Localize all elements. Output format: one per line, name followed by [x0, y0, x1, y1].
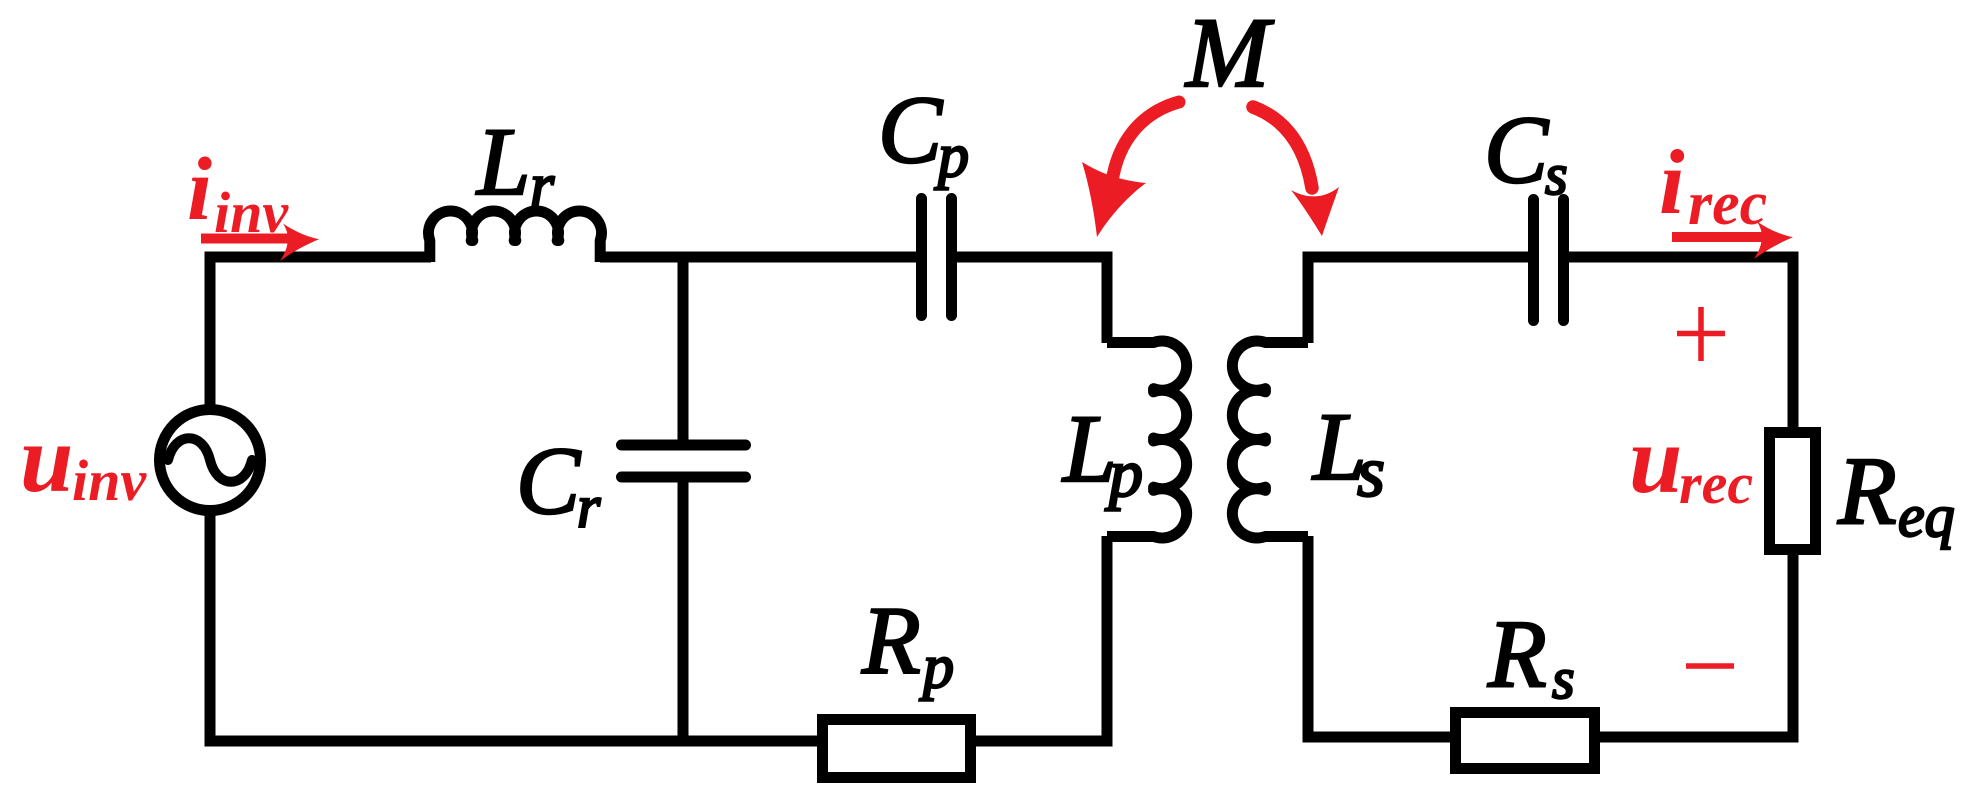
svg-text:s: s — [1357, 432, 1385, 512]
mutual coupling arrow left (arc) — [1112, 102, 1179, 182]
svg-text:u: u — [20, 405, 73, 512]
inductor Lr — [428, 211, 601, 262]
svg-text:R: R — [1837, 437, 1897, 544]
inductor Ls (transformer secondary) — [1232, 341, 1308, 538]
svg-text:u: u — [1629, 406, 1682, 513]
wire: top wire from Cp to primary right corner, down to Lp coil — [957, 257, 1107, 343]
svg-text:s: s — [1552, 646, 1575, 711]
svg-text:r: r — [530, 152, 555, 220]
wire: primary right vertical below Lp coil + bottom wire to Rp — [974, 536, 1107, 741]
svg-text:i: i — [187, 140, 212, 239]
svg-text:R: R — [1487, 600, 1547, 707]
svg-text:p: p — [934, 122, 969, 190]
arrow i_rec shaft — [1672, 232, 1767, 242]
capacitor Cs — [1534, 200, 1564, 321]
resistor Rs — [1456, 713, 1595, 769]
svg-text:p: p — [1105, 435, 1143, 511]
svg-text:C: C — [516, 427, 581, 534]
capacitor Cp — [922, 199, 952, 316]
resistor Req — [1770, 433, 1816, 550]
mutual coupling arrow right (arc) — [1253, 107, 1312, 188]
svg-text:rec: rec — [1688, 170, 1767, 238]
wire: secondary left vertical + top lead to Cs — [1308, 257, 1528, 343]
svg-text:L: L — [475, 108, 530, 215]
resistor Rp — [823, 720, 971, 778]
svg-text:C: C — [878, 76, 943, 183]
svg-text:r: r — [577, 474, 601, 540]
wire: secondary top from Cs to right corner down to Req — [1569, 257, 1793, 430]
wire: primary left loop (left vertical + top lead + bottom lead) — [210, 257, 820, 741]
arrow i_inv shaft — [201, 234, 293, 244]
svg-text:s: s — [1545, 142, 1568, 207]
svg-text:i: i — [1659, 131, 1685, 233]
arrow i_rec head — [1754, 222, 1793, 260]
capacitor Cr — [622, 445, 746, 477]
svg-text:C: C — [1484, 96, 1549, 203]
wire: Cr branch bottom — [678, 482, 689, 741]
arrow i_inv head — [280, 224, 319, 262]
svg-text:M: M — [1184, 0, 1274, 108]
svg-text:p: p — [919, 633, 954, 701]
minus sign — [1686, 663, 1734, 669]
svg-text:rec: rec — [1679, 451, 1753, 516]
svg-text:eq: eq — [1898, 483, 1955, 549]
inductor Lp (transformer primary) — [1107, 341, 1187, 538]
node A: Cr branch top — [678, 257, 689, 440]
plus sign — [1677, 307, 1725, 361]
svg-text:inv: inv — [214, 180, 289, 245]
mutual coupling arrow left head — [1082, 162, 1146, 237]
wire: top wire from inductor Lr to capacitor Cp — [600, 252, 916, 263]
AC source uinv circle — [160, 410, 261, 511]
svg-text:inv: inv — [72, 448, 147, 513]
svg-text:R: R — [861, 587, 921, 694]
wire: secondary right vertical below Req + bottom to Rs — [1598, 553, 1793, 737]
mutual coupling arrow right head — [1291, 187, 1339, 236]
AC source sine wave — [168, 438, 252, 482]
wire: secondary bottom left of Rs + left vertical up to Ls — [1308, 536, 1452, 737]
